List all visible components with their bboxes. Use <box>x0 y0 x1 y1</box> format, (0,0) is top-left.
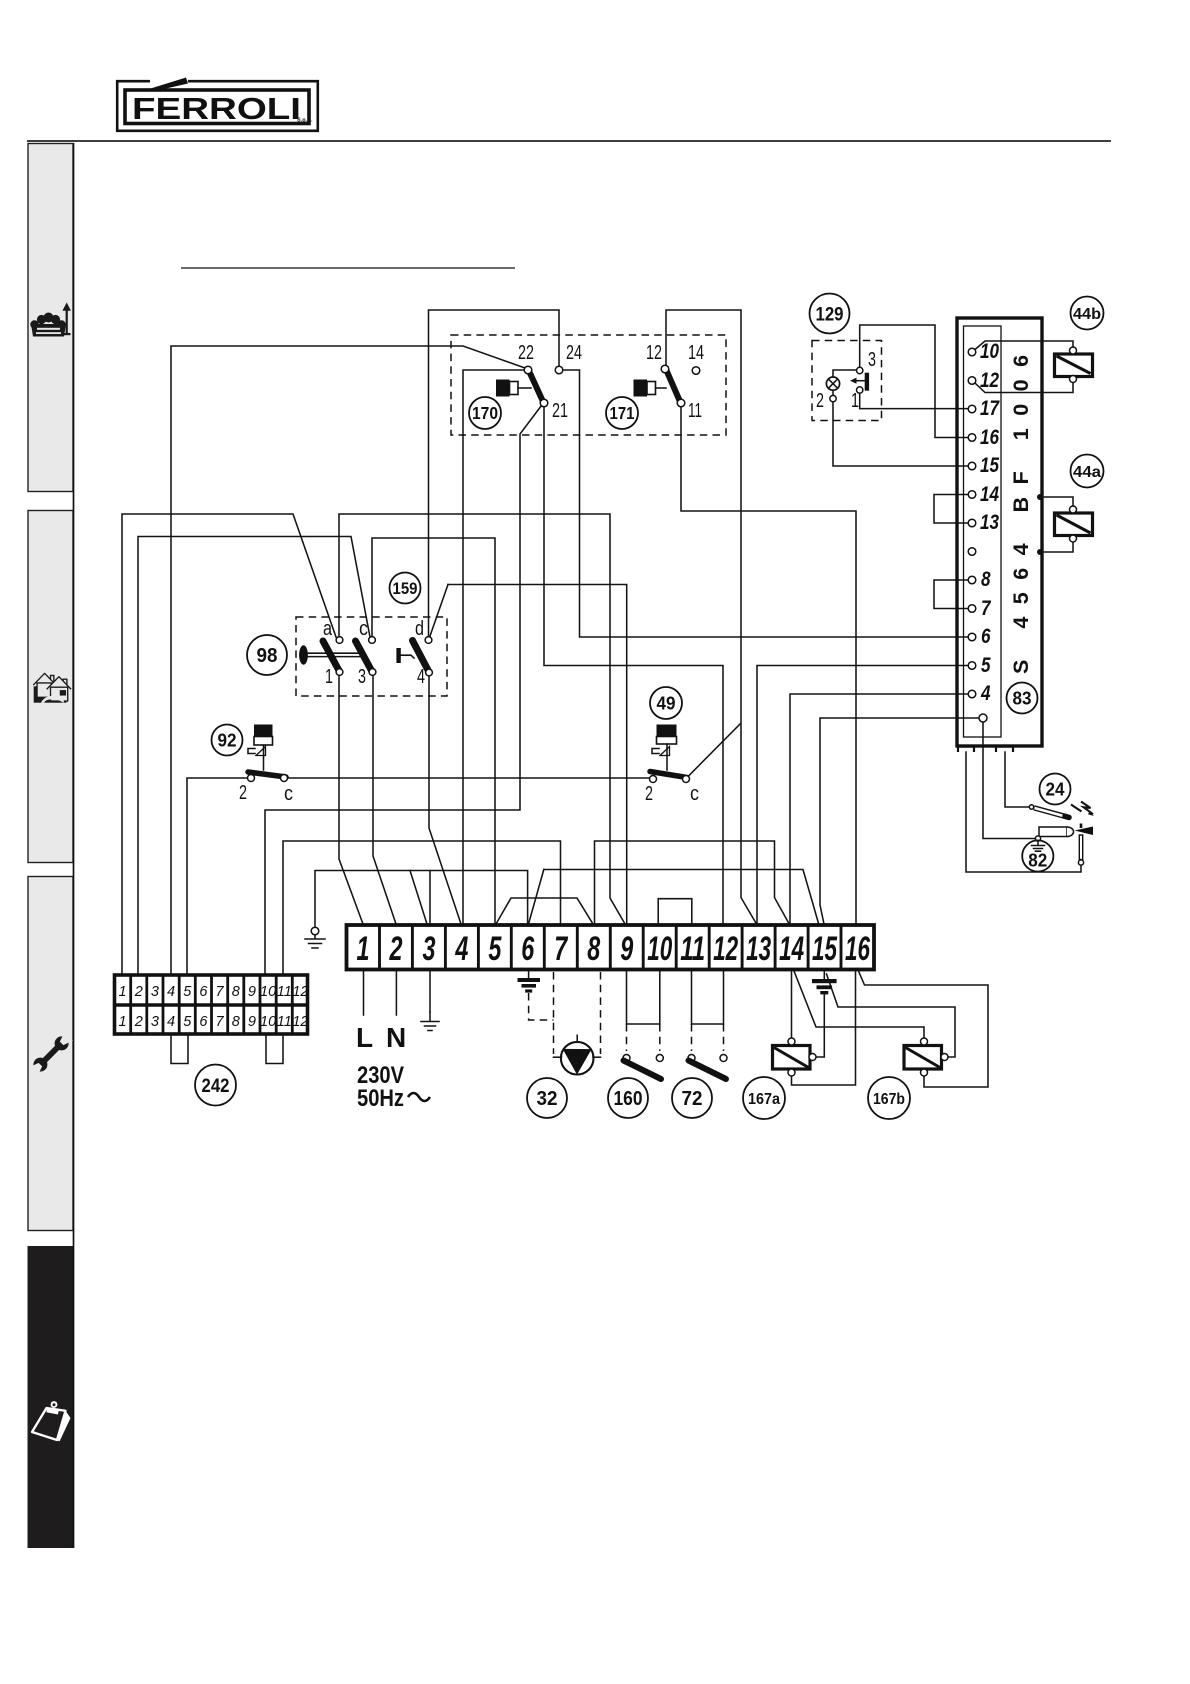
svg-text:16: 16 <box>980 426 999 449</box>
wire terminal16 to 167b bottom <box>859 971 989 1087</box>
svg-text:6: 6 <box>199 984 208 1000</box>
label 49 <box>650 687 682 719</box>
svg-text:2: 2 <box>134 984 143 1000</box>
svg-text:12: 12 <box>980 369 999 392</box>
wire terminal14 to 167b top <box>794 971 924 1038</box>
selector arm 3-c <box>356 641 373 672</box>
sidebar <box>28 143 74 1548</box>
svg-text:c: c <box>359 618 368 640</box>
svg-text:d: d <box>415 618 424 640</box>
selector mechanical link <box>299 645 308 664</box>
svg-text:11: 11 <box>680 930 705 968</box>
wire earth <box>429 971 431 1012</box>
svg-text:7: 7 <box>216 984 225 1000</box>
svg-text:5: 5 <box>183 984 192 1000</box>
dashed box selector 98 <box>296 617 447 696</box>
svg-text:170: 170 <box>472 403 498 423</box>
wire L <box>363 971 365 1015</box>
wire board edge to valve44a bottom <box>1040 542 1073 552</box>
svg-text:FERROLI: FERROLI <box>132 91 301 126</box>
svg-text:44b: 44b <box>1073 306 1101 323</box>
dashed box 129 <box>812 341 882 421</box>
relay U170 pin 22 <box>524 366 532 374</box>
earth symbol below terminal 15 <box>823 971 825 979</box>
wire bridge terminal5-terminal8 <box>496 898 593 924</box>
wire earth bus to terminal3 <box>410 871 430 925</box>
svg-text:3: 3 <box>868 349 876 371</box>
svg-text:4: 4 <box>167 984 175 1000</box>
thermostat 49 body <box>657 725 677 737</box>
svg-text:2: 2 <box>239 782 247 804</box>
svg-text:8: 8 <box>587 930 600 968</box>
sensing electrode 82 <box>1039 827 1067 837</box>
selector contact 3 <box>369 669 376 676</box>
svg-text:5: 5 <box>488 930 502 968</box>
label 167b <box>868 1077 910 1119</box>
wire earth bus right <box>544 870 819 925</box>
svg-text:83: 83 <box>1013 688 1032 709</box>
strip 242 legs <box>171 1034 188 1064</box>
svg-text:9: 9 <box>248 1014 256 1030</box>
svg-text:15: 15 <box>812 930 838 968</box>
switch 129 <box>857 367 863 373</box>
wire selector4 to terminal4 <box>429 677 461 924</box>
svg-text:3: 3 <box>423 930 436 968</box>
svg-text:159: 159 <box>393 579 418 598</box>
thermostat 49 arm <box>650 772 687 778</box>
svg-text:15: 15 <box>980 454 999 477</box>
thermostat 92 arm <box>248 772 286 777</box>
svg-text:1: 1 <box>357 930 370 968</box>
selector contact 4 <box>426 669 433 676</box>
svg-text:14: 14 <box>980 483 999 506</box>
pump 32 <box>561 1042 594 1075</box>
svg-text:8: 8 <box>232 1014 240 1030</box>
svg-text:2: 2 <box>645 783 653 805</box>
icon clipboard <box>32 1401 71 1441</box>
board lower pin <box>979 714 987 722</box>
earth symbol below terminal 3 <box>421 1012 439 1031</box>
svg-text:160: 160 <box>614 1088 643 1110</box>
wire relay171 pin11 to terminal16 <box>681 407 856 925</box>
selector contact a <box>336 637 343 644</box>
wire terminal15 to 167b side <box>827 974 956 1057</box>
label 170 <box>469 397 501 429</box>
wire selector c to terminal5 <box>372 538 495 924</box>
svg-text:2: 2 <box>389 930 403 968</box>
svg-text:c: c <box>284 783 293 805</box>
svg-text:4: 4 <box>455 930 469 968</box>
wire selector3 to terminal2 <box>373 676 396 924</box>
label 44a <box>1071 455 1104 488</box>
svg-text:10: 10 <box>260 984 276 1000</box>
terminal strip 242 <box>115 975 308 1034</box>
svg-text:44a: 44a <box>1073 464 1101 481</box>
svg-text:32: 32 <box>537 1088 558 1110</box>
svg-text:c: c <box>690 783 699 805</box>
spark gap <box>1071 805 1082 812</box>
terminal strip 1-16 <box>347 925 875 970</box>
wire terminal15 to 167a side <box>816 995 824 1058</box>
svg-text:8: 8 <box>981 568 991 591</box>
wire 242.10 to relay170 pin21 <box>265 406 542 975</box>
svg-text:24: 24 <box>566 342 582 364</box>
svg-text:242: 242 <box>202 1075 230 1097</box>
svg-text:5: 5 <box>981 654 991 677</box>
svg-text:3: 3 <box>151 984 159 1000</box>
svg-text:S.p.A.: S.p.A. <box>297 118 313 124</box>
wire board pin5 to terminal13 <box>757 666 968 925</box>
label 72 <box>672 1078 712 1118</box>
svg-text:7: 7 <box>216 1014 225 1030</box>
label 159 <box>390 573 421 604</box>
pin labels <box>980 340 1000 705</box>
thermostat 92 body <box>254 725 273 737</box>
wire relay170 pin22 to terminal4 <box>463 370 524 924</box>
junction dot <box>1037 494 1043 500</box>
selector contact c <box>369 637 376 644</box>
junction dot <box>1037 549 1043 555</box>
wire 242.1 to selector contact a <box>122 514 336 974</box>
svg-text:L: L <box>356 1022 373 1053</box>
relay U170 pin 21 <box>540 399 548 407</box>
svg-text:22: 22 <box>518 342 534 364</box>
svg-text:50Hz: 50Hz <box>357 1085 404 1112</box>
wire board lower pin to electrode82 <box>983 723 1035 839</box>
svg-text:N: N <box>386 1022 406 1053</box>
wire node159 diagonal to selector d <box>430 585 448 637</box>
relay U171 coil <box>634 380 648 397</box>
node 2 <box>830 395 836 401</box>
flame sensor tip <box>1080 824 1083 829</box>
wire relay170 pin24 to board pin6 <box>563 370 968 637</box>
relay 167b <box>904 1046 942 1070</box>
svg-text:98: 98 <box>257 645 278 667</box>
wire board foot2 to ignition electrode <box>1005 752 1029 807</box>
wire comp129 pin1 to board pin17 <box>860 394 968 409</box>
svg-text:S 4564 BF 1006: S 4564 BF 1006 <box>1009 342 1033 674</box>
wire thermostat92 c to thermostat49 pin2 <box>288 777 650 779</box>
svg-text:1: 1 <box>325 666 333 688</box>
svg-text:12: 12 <box>292 1014 308 1030</box>
strip 242 dividers <box>131 975 293 1034</box>
label 167a <box>743 1077 785 1119</box>
wire board bracket pins 8-7 <box>934 580 968 609</box>
svg-text:72: 72 <box>682 1088 703 1110</box>
relay 167a <box>773 1046 811 1070</box>
top rule <box>27 140 1111 142</box>
svg-text:14: 14 <box>688 342 704 364</box>
svg-text:2: 2 <box>134 1014 143 1030</box>
svg-text:92: 92 <box>218 730 237 751</box>
terminal numbers 1-16 <box>357 930 871 968</box>
svg-text:1: 1 <box>851 390 859 412</box>
svg-text:9: 9 <box>248 984 256 1000</box>
svg-text:49: 49 <box>657 693 676 714</box>
gas valve 44b <box>1055 354 1093 377</box>
label 171 <box>606 397 638 429</box>
svg-text:12: 12 <box>646 342 662 364</box>
wire board lower pin to terminal15 <box>820 718 979 924</box>
relay U170 switch arm <box>529 371 543 402</box>
ignition electrode 24 <box>1029 805 1033 809</box>
svg-text:3: 3 <box>358 666 366 688</box>
title underline <box>181 267 515 269</box>
svg-text:10: 10 <box>260 1014 276 1030</box>
relay U170 coil <box>496 380 510 397</box>
icon sofa with lamp <box>30 303 71 337</box>
strip 242 numbers <box>119 984 309 1030</box>
relay U171 pin 14 <box>692 367 700 375</box>
wire 242.11 to terminal7 <box>283 841 561 974</box>
svg-text:11: 11 <box>277 984 292 1000</box>
wire terminal16 to 167a bottom <box>792 971 856 1085</box>
svg-text:10: 10 <box>980 340 999 363</box>
wire 242.4 to relay170 pin22 <box>171 346 525 974</box>
relay U171 switch arm <box>667 371 681 402</box>
svg-text:7: 7 <box>554 930 568 968</box>
svg-text:9: 9 <box>620 930 633 968</box>
svg-text:6: 6 <box>199 1014 208 1030</box>
control board U83 S4564 <box>957 318 1042 746</box>
svg-text:82: 82 <box>1028 851 1047 871</box>
selector d link <box>396 648 400 663</box>
svg-text:4: 4 <box>417 666 425 688</box>
wire board pin10 to valve44b <box>975 341 1073 350</box>
wire board edge to valve44a top <box>1040 497 1073 506</box>
svg-text:11: 11 <box>688 400 702 422</box>
wire N <box>395 971 397 1015</box>
selector contact d <box>425 637 432 644</box>
svg-text:13: 13 <box>746 930 771 968</box>
svg-text:6: 6 <box>981 625 991 648</box>
selector contact 1 <box>336 669 343 676</box>
wire node159 to terminal9 <box>448 585 627 925</box>
gas valve 44a <box>1055 513 1093 536</box>
svg-text:5: 5 <box>183 1014 192 1030</box>
contact c <box>683 776 690 783</box>
svg-text:13: 13 <box>980 511 999 534</box>
lamp 129 <box>826 377 839 390</box>
wire terminal14 to 167a top <box>791 971 793 1038</box>
svg-text:171: 171 <box>610 403 635 423</box>
svg-text:4: 4 <box>980 682 991 705</box>
svg-text:11: 11 <box>277 1014 292 1030</box>
svg-text:129: 129 <box>816 305 844 326</box>
label 24 <box>1040 774 1071 805</box>
selector arm 4-d <box>413 641 430 673</box>
wire relay170 pin21 to terminal12 <box>544 407 723 925</box>
svg-text:24: 24 <box>1046 779 1066 800</box>
svg-text:a: a <box>323 618 333 640</box>
svg-text:14: 14 <box>779 930 804 968</box>
wire lamp to pin3 <box>833 370 857 377</box>
label 160 <box>608 1078 648 1118</box>
contact 2 <box>248 775 255 782</box>
icon houses <box>33 673 71 702</box>
contact c <box>281 775 288 782</box>
svg-text:17: 17 <box>980 397 1000 420</box>
label 82 <box>1022 840 1053 871</box>
svg-text:16: 16 <box>845 930 871 968</box>
bridge terminals 10-11 <box>658 899 692 924</box>
wire board pin4 to terminal14 <box>790 694 968 924</box>
wire selector1 to terminal1 <box>339 676 363 924</box>
earth symbol below terminal 6 <box>528 971 530 978</box>
svg-text:12: 12 <box>713 930 738 968</box>
wire comp129 pin2 to board pin15 <box>833 402 968 466</box>
label 92 <box>212 725 243 756</box>
label 32 <box>527 1078 567 1118</box>
label 44b <box>1071 297 1104 330</box>
terminal strip dividers <box>380 925 842 970</box>
svg-text:12: 12 <box>292 984 308 1000</box>
wire 242.5 to thermostat92 pin2 <box>187 778 248 974</box>
wire 242.2 to selector contact c <box>138 537 370 975</box>
svg-text:167b: 167b <box>873 1091 905 1108</box>
wire node a bus to terminal9 <box>339 514 625 924</box>
wire board pin12 to valve44b <box>975 383 1073 393</box>
switch 72 <box>688 1055 695 1062</box>
board feet <box>958 747 974 753</box>
svg-text:8: 8 <box>232 984 240 1000</box>
link terminals 11-12 <box>692 971 724 1024</box>
wire earth bus diagonal into terminal6 <box>529 870 544 925</box>
dashed box relays 170-171 <box>451 335 726 435</box>
label 242 <box>195 1065 236 1106</box>
earth symbol left of strip <box>311 927 319 935</box>
selector arm 1-a <box>323 641 340 672</box>
svg-text:4: 4 <box>167 1014 175 1030</box>
FERROLI logo <box>117 78 318 131</box>
relay U170 pin 24 <box>555 366 563 374</box>
icon wrench <box>28 1031 73 1076</box>
label 83 <box>1007 683 1038 714</box>
switch 160 <box>623 1055 630 1062</box>
board pins <box>968 348 976 356</box>
relay U171 pin 12 <box>661 365 669 373</box>
svg-text:10: 10 <box>647 930 672 968</box>
svg-text:1: 1 <box>119 984 127 1000</box>
svg-text:2: 2 <box>816 390 824 412</box>
svg-text:7: 7 <box>981 597 992 620</box>
wire thermostat49 c to relay171 pin12 <box>666 310 757 924</box>
pump 32 dashed leads <box>553 972 555 1054</box>
wire board foot1 to flame sensor <box>966 752 1081 872</box>
contact 2 <box>650 776 657 783</box>
svg-text:167a: 167a <box>748 1091 780 1108</box>
wire terminal8 to terminal14 <box>595 841 790 924</box>
wire board bracket pins 14-13 <box>934 495 968 524</box>
svg-text:6: 6 <box>521 930 535 968</box>
label 129 <box>810 294 850 334</box>
link terminals 9-10 <box>627 971 660 1024</box>
svg-text:1: 1 <box>119 1014 127 1030</box>
wire selector d to relay170 pin24 <box>429 310 560 636</box>
svg-text:3: 3 <box>151 1014 159 1030</box>
relay U171 pin 11 <box>677 399 685 407</box>
svg-text:21: 21 <box>552 400 568 422</box>
wire earth bus <box>315 871 528 928</box>
wire comp129 pin3 to board pin16 <box>860 325 968 438</box>
label 98 <box>247 635 287 675</box>
